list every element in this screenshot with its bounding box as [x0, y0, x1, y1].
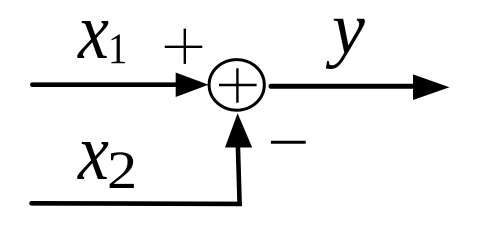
plus symbol inside summing junction	[219, 68, 257, 102]
arrowhead: x2 into summing junction bottom	[225, 113, 252, 147]
arrowhead: input x1 into summing junction	[176, 73, 209, 98]
label x2: x	[78, 113, 109, 193]
arrowhead: output y	[413, 74, 450, 100]
minus sign label (x2 polarity)	[271, 141, 306, 144]
label x1: x	[78, 0, 109, 72]
wire: input x1 shaft	[32, 82, 179, 87]
label x2: subscript 2	[107, 143, 137, 197]
plus sign label (x1 polarity)	[165, 29, 203, 64]
label x1: subscript 1	[108, 28, 127, 71]
wire: output y shaft	[271, 84, 414, 89]
label y	[332, 0, 365, 66]
wire: x2 bottom horizontal segment and vertical riser	[32, 146, 240, 204]
summing junction U1 circle	[209, 60, 264, 111]
